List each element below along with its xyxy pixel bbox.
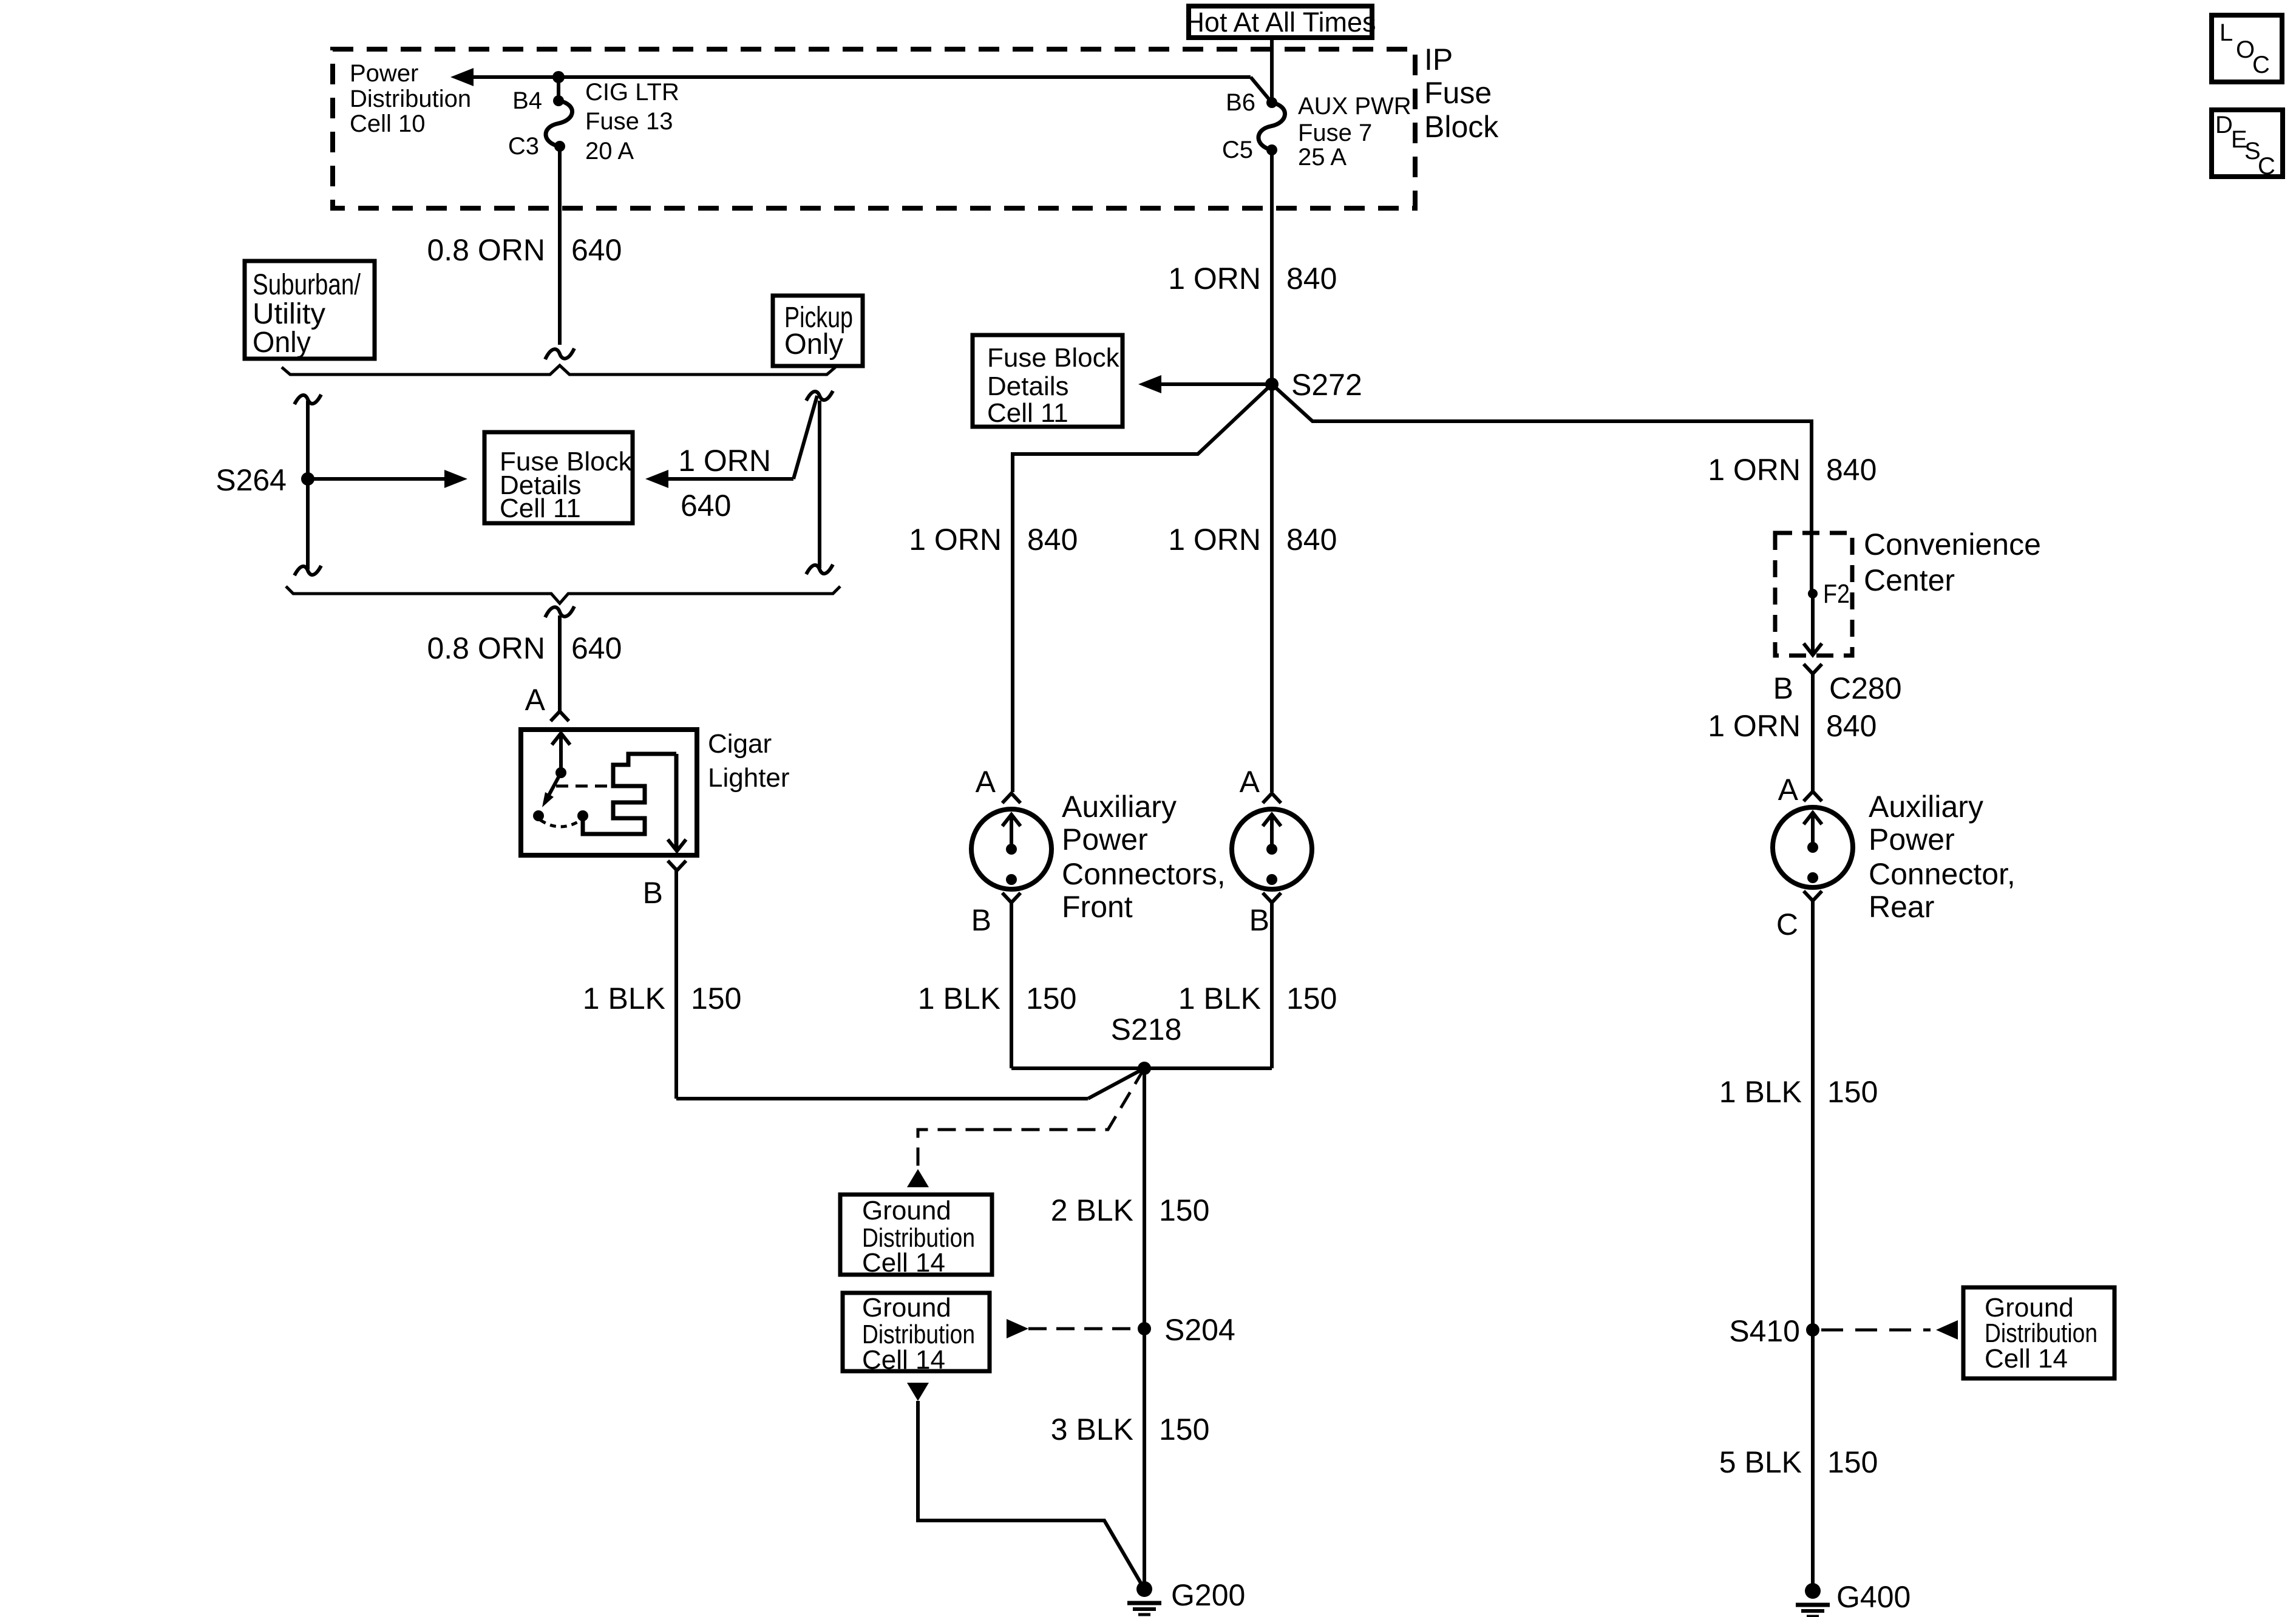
- svg-text:B: B: [971, 903, 991, 937]
- connector: Auxiliary Power Connector rear: [1773, 807, 1853, 887]
- arrow: S264 to Fuse Block Details: [308, 477, 447, 481]
- dashed box: IP Fuse Block: [333, 49, 1415, 208]
- svg-text:1 BLK: 1 BLK: [1178, 981, 1261, 1015]
- fuse F13 CIG LTR 20A (B4-C3): [553, 95, 564, 106]
- svg-text:Front: Front: [1062, 890, 1133, 924]
- terminal: rear connector pin A: [1804, 792, 1822, 801]
- svg-text:840: 840: [1826, 709, 1877, 743]
- svg-text:Only: Only: [784, 328, 843, 361]
- wire: S218 tie bar: [1011, 1066, 1272, 1070]
- box: Fuse Block Details Cell 11 (middle): [973, 335, 1123, 427]
- wire: S410 to G400: [1811, 1330, 1815, 1591]
- arrow: Ground Distribution down link to G200: [907, 1383, 929, 1401]
- svg-text:150: 150: [1827, 1445, 1878, 1479]
- svg-text:Rear: Rear: [1869, 890, 1934, 924]
- cigar lighter: input arrow and switch pivot: [552, 733, 570, 745]
- svg-text:Fuse 13: Fuse 13: [585, 108, 673, 135]
- dashed arrow: S218 to Ground Distribution Cell 14 (upper): [918, 1068, 1144, 1171]
- svg-text:Suburban/: Suburban/: [253, 269, 361, 301]
- svg-text:C: C: [2258, 153, 2275, 180]
- cigar lighter: heating element meander: [583, 754, 676, 834]
- svg-text:CIG LTR: CIG LTR: [585, 79, 679, 106]
- svg-text:25 A: 25 A: [1298, 144, 1347, 171]
- junction node on feed wire: [552, 71, 565, 83]
- box: Ground Distribution Cell 14 (right): [1963, 1287, 2114, 1378]
- svg-text:20 A: 20 A: [585, 138, 634, 164]
- svg-text:3 BLK: 3 BLK: [1051, 1412, 1133, 1446]
- brace: harness bundle bottom: [286, 586, 840, 603]
- svg-text:150: 150: [1159, 1412, 1209, 1446]
- svg-text:S218: S218: [1111, 1012, 1182, 1046]
- wire: S272 right branch to convenience center: [1272, 384, 1812, 531]
- svg-text:A: A: [1778, 773, 1799, 807]
- svg-text:840: 840: [1286, 523, 1337, 557]
- box: Ground Distribution Cell 14 (upper): [840, 1195, 992, 1275]
- svg-text:1 ORN: 1 ORN: [909, 523, 1002, 557]
- svg-text:2 BLK: 2 BLK: [1051, 1193, 1133, 1227]
- svg-text:B: B: [1773, 671, 1793, 705]
- svg-text:840: 840: [1286, 262, 1337, 296]
- svg-text:1 ORN: 1 ORN: [1708, 453, 1801, 487]
- cigar lighter: switch arm with arrowhead: [545, 773, 561, 803]
- cigar lighter: dashed contact arc: [540, 820, 581, 827]
- wire: harness to cigar lighter pin A: [545, 606, 574, 617]
- svg-text:Ground: Ground: [862, 1196, 951, 1225]
- component box: Cigar Lighter: [521, 730, 697, 855]
- bar: Pickup branch extent with curled ends: [818, 401, 821, 568]
- cigar lighter: output wire with down arrow: [674, 754, 679, 850]
- svg-text:1 ORN: 1 ORN: [678, 444, 771, 478]
- svg-text:Connector,: Connector,: [1869, 857, 2016, 891]
- svg-text:640: 640: [571, 233, 622, 267]
- svg-text:840: 840: [1826, 453, 1877, 487]
- svg-text:640: 640: [681, 489, 731, 523]
- wire: C5 to S272: [1270, 150, 1274, 384]
- svg-text:A: A: [976, 765, 996, 799]
- svg-text:Fuse Block: Fuse Block: [987, 343, 1120, 373]
- dashed arrow: Ground Distribution to S204: [1007, 1319, 1028, 1338]
- svg-text:Cell 14: Cell 14: [862, 1345, 945, 1375]
- svg-text:C: C: [1776, 907, 1798, 941]
- svg-text:Fuse 7: Fuse 7: [1298, 120, 1372, 146]
- svg-text:G400: G400: [1836, 1580, 1911, 1614]
- wire: stub to fuse B4: [557, 77, 560, 101]
- svg-text:Cell 10: Cell 10: [350, 110, 426, 137]
- ground G400: [1805, 1583, 1821, 1599]
- svg-text:S272: S272: [1291, 368, 1362, 402]
- ground G200: [1136, 1581, 1152, 1597]
- svg-text:150: 150: [1159, 1193, 1209, 1227]
- svg-text:Auxiliary: Auxiliary: [1062, 790, 1177, 824]
- svg-text:640: 640: [571, 631, 622, 665]
- svg-text:G200: G200: [1171, 1578, 1245, 1612]
- svg-text:0.8 ORN: 0.8 ORN: [427, 631, 545, 665]
- svg-text:Cell 14: Cell 14: [862, 1248, 945, 1278]
- svg-text:B: B: [1249, 903, 1269, 937]
- svg-text:Power: Power: [350, 60, 418, 87]
- svg-text:Hot At All Times: Hot At All Times: [1184, 7, 1376, 38]
- wire: S272 down to front connector 2: [1270, 384, 1274, 792]
- svg-text:B6: B6: [1226, 89, 1255, 116]
- node S264: [301, 472, 314, 486]
- arrow: S272 to Fuse Block Details: [1147, 382, 1272, 386]
- svg-text:AUX PWR: AUX PWR: [1298, 93, 1411, 120]
- svg-text:Cell 11: Cell 11: [500, 493, 581, 523]
- svg-text:C: C: [2252, 52, 2270, 78]
- svg-text:1 ORN: 1 ORN: [1708, 709, 1801, 743]
- cigar lighter: switch contact dots: [533, 810, 544, 821]
- svg-text:Power: Power: [1062, 822, 1148, 856]
- wire: front connector 1 B to S218: [1010, 903, 1013, 1068]
- svg-text:1 BLK: 1 BLK: [918, 981, 1000, 1015]
- svg-text:1 BLK: 1 BLK: [583, 981, 665, 1015]
- svg-text:Block: Block: [1424, 110, 1499, 144]
- svg-text:Distribution: Distribution: [350, 86, 471, 112]
- box: Fuse Block Details Cell 11 (left): [484, 432, 633, 523]
- svg-text:IP: IP: [1424, 42, 1453, 76]
- wire: front connector 2 B to S218: [1270, 903, 1274, 1068]
- svg-text:S204: S204: [1164, 1313, 1235, 1347]
- dashed box: Convenience Center: [1775, 533, 1852, 656]
- box: Pickup Only: [773, 296, 863, 366]
- svg-text:150: 150: [691, 981, 741, 1015]
- fuse node F2: [1808, 589, 1818, 598]
- wire: C280 to rear connector A: [1811, 674, 1815, 792]
- wire: C3 down to harness break: [558, 146, 562, 345]
- box: Suburban/Utility Only: [245, 261, 375, 359]
- svg-text:D: D: [2215, 112, 2233, 138]
- connector: Auxiliary Power Connector front 2: [1232, 809, 1312, 889]
- box: LOC legend: [2212, 15, 2282, 82]
- svg-text:Lighter: Lighter: [708, 763, 790, 793]
- svg-text:Utility: Utility: [253, 298, 325, 330]
- terminal: front connector 1 pin A: [1002, 793, 1021, 803]
- svg-text:C5: C5: [1222, 137, 1253, 163]
- node S410: [1806, 1323, 1819, 1337]
- svg-text:1 ORN: 1 ORN: [1168, 262, 1261, 296]
- box: DESC legend: [2212, 110, 2283, 177]
- wire: fuse feed from B6 to Power Distribution arrow: [472, 75, 1251, 79]
- svg-text:C3: C3: [508, 133, 539, 160]
- svg-text:Ground: Ground: [862, 1293, 951, 1323]
- arrow: convenience center output: [1811, 594, 1815, 655]
- terminal: C280 pin B: [1804, 664, 1822, 674]
- svg-text:Details: Details: [987, 371, 1069, 401]
- wire: S272 left branch to front connector 1: [1013, 384, 1272, 792]
- node S204: [1138, 1322, 1151, 1335]
- svg-text:Cell 11: Cell 11: [987, 398, 1068, 428]
- svg-text:5 BLK: 5 BLK: [1719, 1445, 1802, 1479]
- terminal: cigar lighter pin A chevron: [551, 711, 569, 721]
- svg-text:Convenience: Convenience: [1864, 527, 2041, 561]
- svg-text:S410: S410: [1729, 1314, 1800, 1348]
- terminal: rear connector pin C: [1804, 891, 1822, 901]
- svg-text:B4: B4: [512, 87, 542, 114]
- terminal: front connector 1 pin B: [1002, 893, 1021, 903]
- wire: S204 to G200: [1143, 1329, 1146, 1589]
- terminal: front connector 2 pin A: [1263, 793, 1281, 803]
- svg-text:Only: Only: [253, 327, 311, 359]
- svg-text:150: 150: [1026, 981, 1076, 1015]
- wire: into convenience center fuse F2: [1810, 421, 1813, 594]
- svg-text:840: 840: [1027, 523, 1078, 557]
- terminal: cigar lighter pin B: [668, 861, 686, 870]
- svg-text:Cigar: Cigar: [708, 729, 772, 759]
- wire: cigar lighter B to S218: [674, 870, 678, 1099]
- svg-text:Fuse: Fuse: [1424, 76, 1492, 110]
- dashed arrow: S410 to Ground Distribution Cell 14 (right): [1821, 1329, 1931, 1332]
- svg-text:F2: F2: [1823, 579, 1850, 609]
- box: Hot At All Times: [1189, 6, 1372, 38]
- svg-text:S264: S264: [216, 463, 287, 497]
- wire: S218 to S204: [1143, 1068, 1146, 1329]
- svg-text:Connectors,: Connectors,: [1062, 857, 1226, 891]
- svg-text:B: B: [643, 876, 663, 910]
- svg-text:0.8 ORN: 0.8 ORN: [427, 233, 545, 267]
- bar: Suburban branch extent with curled ends: [306, 401, 310, 569]
- svg-text:Center: Center: [1864, 563, 1955, 597]
- wire: Hot At All Times to fuse B6: [1270, 40, 1274, 103]
- terminal: front connector 2 pin B: [1263, 893, 1281, 903]
- node S218: [1138, 1062, 1151, 1075]
- brace: harness bundle top: [282, 365, 835, 375]
- svg-text:L: L: [2220, 19, 2233, 46]
- svg-text:A: A: [1240, 765, 1260, 799]
- svg-text:Cell 14: Cell 14: [1985, 1344, 2068, 1374]
- svg-text:150: 150: [1827, 1075, 1878, 1109]
- svg-text:1 ORN: 1 ORN: [1168, 523, 1261, 557]
- svg-text:A: A: [525, 683, 546, 717]
- svg-text:Power: Power: [1869, 822, 1955, 856]
- box: Ground Distribution Cell 14 (lower): [843, 1293, 990, 1371]
- cigar lighter: dashed link to element: [556, 785, 612, 788]
- wire: rear connector C to S410: [1811, 901, 1815, 1330]
- node S272: [1265, 378, 1279, 391]
- svg-text:C280: C280: [1829, 671, 1902, 705]
- svg-text:1 BLK: 1 BLK: [1719, 1075, 1802, 1109]
- svg-text:150: 150: [1286, 981, 1337, 1015]
- svg-text:Auxiliary: Auxiliary: [1869, 790, 1983, 824]
- arrow: 1 ORN 640 wire into Fuse Block Details: [667, 477, 793, 481]
- fuse F7 AUX PWR 25A (B6-C5): [1266, 97, 1277, 108]
- connector: Auxiliary Power Connector front 1: [971, 809, 1051, 889]
